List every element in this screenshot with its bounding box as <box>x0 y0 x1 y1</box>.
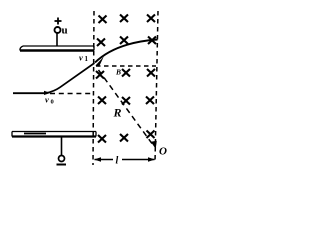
deflected trajectory in capacitor <box>46 63 95 93</box>
velocity arrowhead at field entry <box>96 57 104 67</box>
svg-text:v: v <box>79 53 83 63</box>
svg-text:l: l <box>116 156 119 167</box>
dashed undeflected path <box>50 93 93 95</box>
field mark x row4 col3 <box>146 97 154 105</box>
field mark x row4 col2 <box>122 97 130 105</box>
negative terminal circle <box>59 156 65 162</box>
left dashed boundary of field region <box>93 11 94 165</box>
svg-text:B: B <box>115 68 121 77</box>
field mark x row2 col3 <box>148 37 156 45</box>
voltage source positive terminal plus sign <box>55 18 62 25</box>
field mark x row2 col2 <box>120 37 128 45</box>
dashed radius line R to center O <box>99 70 154 145</box>
field mark x row5 col3 <box>147 131 155 139</box>
width measurement right arrow <box>122 159 155 161</box>
svg-text:1: 1 <box>85 55 89 63</box>
svg-text:u: u <box>62 25 68 37</box>
incoming horizontal trajectory <box>13 92 46 94</box>
field mark x row1 col2 <box>120 15 128 23</box>
circular arc in field region <box>95 40 158 63</box>
arrowhead at bend <box>44 91 51 95</box>
voltage source terminal circle <box>55 27 61 33</box>
field mark x row3 col2 <box>122 69 130 77</box>
svg-text:R: R <box>113 106 122 120</box>
negative terminal minus line <box>57 164 67 166</box>
field mark x row4 col1 <box>98 97 106 105</box>
field mark x row5 col1 <box>98 135 106 143</box>
svg-text:v: v <box>45 95 49 105</box>
dashed horizontal chord from entry point <box>96 65 156 67</box>
field mark x row3 col3 <box>147 69 155 77</box>
field mark x row1 col1 <box>99 16 107 24</box>
bottom capacitor plate <box>12 132 96 137</box>
width measurement left arrow <box>95 159 114 161</box>
wire from terminal to top plate <box>56 33 58 47</box>
wire from bottom plate to negative terminal <box>61 137 63 156</box>
field mark x row2 col1 <box>97 39 105 47</box>
radius arrowhead at O <box>151 141 157 149</box>
field mark x row3 col1 <box>96 71 104 79</box>
field mark x row1 col3 <box>147 15 155 23</box>
right dashed boundary of field region <box>155 11 158 163</box>
field mark x row5 col2 <box>120 134 128 142</box>
svg-text:O: O <box>159 146 167 158</box>
top capacitor plate <box>20 46 94 51</box>
svg-text:0: 0 <box>51 99 54 106</box>
